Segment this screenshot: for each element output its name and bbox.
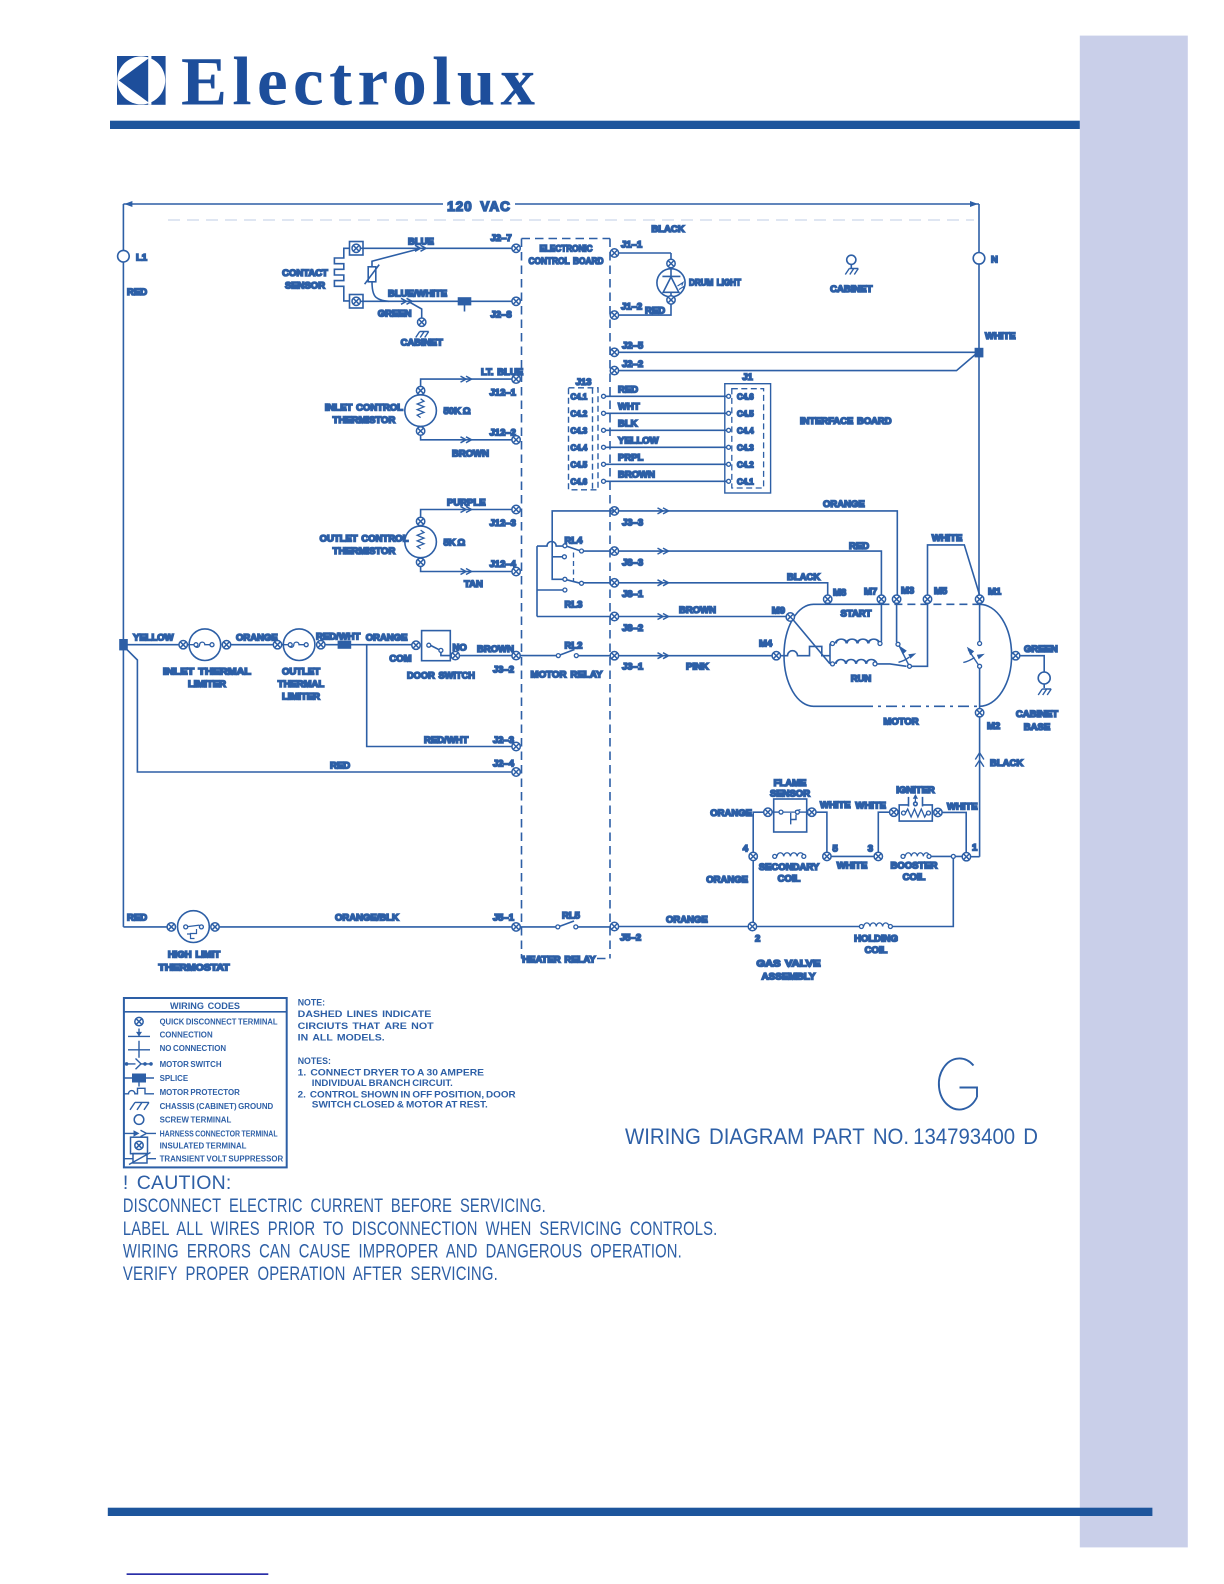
terminal J5-1 [512, 923, 520, 931]
svg-text:J12–4: J12–4 [490, 559, 517, 570]
footer link line [127, 1573, 269, 1575]
svg-text:ORANGE: ORANGE [666, 915, 708, 926]
svg-text:ORANGE/BLK: ORANGE/BLK [335, 913, 399, 924]
svg-text:BROWN: BROWN [679, 605, 716, 616]
svg-text:BLUE: BLUE [408, 237, 434, 248]
terminal M1 [975, 595, 983, 603]
motor M1 outline [784, 604, 1012, 727]
svg-text:C4.6: C4.6 [737, 393, 754, 402]
svg-text:! CAUTION:: ! CAUTION: [123, 1172, 232, 1194]
legend chassis ground [130, 1102, 274, 1111]
terminal J2-4 [512, 768, 520, 776]
svg-text:CONTROL BOARD: CONTROL BOARD [529, 256, 604, 267]
svg-text:BROWN: BROWN [477, 644, 514, 655]
wire BROWN to J12-2 [421, 428, 516, 460]
caution block [123, 1172, 718, 1285]
svg-text:BOOSTER: BOOSTER [891, 861, 938, 872]
node L1 [118, 204, 148, 298]
svg-text:SECONDARY: SECONDARY [759, 862, 820, 873]
svg-text:THERMOSTAT: THERMOSTAT [159, 963, 230, 974]
svg-text:DRUM LIGHT: DRUM LIGHT [689, 278, 741, 289]
svg-text:J8–2: J8–2 [622, 623, 643, 634]
svg-text:RED: RED [849, 541, 869, 552]
svg-text:ORANGE: ORANGE [236, 633, 278, 644]
terminal COM door switch [412, 641, 420, 649]
svg-text:ORANGE: ORANGE [823, 499, 865, 510]
terminal J2-2 [610, 366, 618, 374]
svg-text:J2–4: J2–4 [493, 759, 515, 770]
wire BLACK M2 to gas valve [975, 717, 1023, 857]
svg-text:LIMITER: LIMITER [188, 679, 226, 690]
terminal M3 [892, 595, 900, 603]
wire ORANGE/BLK high limit to J5-1 [219, 913, 512, 927]
wire BLUE to J2-7 [360, 233, 512, 251]
svg-text:INLET THERMAL: INLET THERMAL [163, 667, 251, 678]
svg-text:M1: M1 [988, 587, 1002, 598]
wire PURPLE to J12-3 [421, 498, 516, 530]
svg-text:50K Ω: 50K Ω [444, 406, 471, 417]
svg-text:1. CONNECT DRYER TO A 30 AMPE: 1. CONNECT DRYER TO A 30 AMPERE [298, 1068, 484, 1078]
fuse inlet thermal limiter [123, 629, 251, 690]
relay RL5 [520, 911, 610, 966]
thermistor element [368, 267, 376, 282]
legend motor protector [124, 1088, 240, 1097]
svg-text:BLK: BLK [618, 418, 638, 429]
svg-text:C4.6: C4.6 [571, 478, 588, 487]
wire flame sensor to terminal 4 [753, 812, 764, 852]
switch door switch [389, 631, 475, 682]
top rule [110, 121, 1080, 129]
svg-text:M9: M9 [772, 606, 785, 617]
svg-text:J13: J13 [576, 377, 592, 388]
svg-text:120 VAC: 120 VAC [447, 199, 511, 214]
wire RED to J2-4 [123, 646, 512, 772]
svg-text:J5–2: J5–2 [620, 933, 641, 944]
svg-text:COIL: COIL [903, 872, 926, 883]
svg-text:NOTE:: NOTE: [298, 998, 325, 1008]
ground cabinet base [1016, 656, 1058, 733]
wire M9 to run common [793, 620, 830, 664]
svg-text:M5: M5 [934, 586, 948, 597]
svg-text:MOTOR RELAY: MOTOR RELAY [531, 670, 604, 681]
terminal J12-3 [512, 505, 520, 513]
svg-text:J12–1: J12–1 [490, 388, 517, 399]
svg-text:HEATER RELAY: HEATER RELAY [522, 955, 596, 966]
legend transient volt suppressor [124, 1153, 283, 1165]
svg-text:OUTLET CONTROL: OUTLET CONTROL [320, 534, 409, 545]
svg-text:C4.1: C4.1 [571, 393, 588, 402]
svg-text:PURPLE: PURPLE [447, 498, 486, 509]
svg-text:LT. BLUE: LT. BLUE [481, 367, 523, 378]
svg-text:J12–2: J12–2 [490, 428, 516, 439]
wire L1 bus [122, 262, 124, 645]
svg-text:RED: RED [330, 761, 350, 772]
svg-text:COIL: COIL [778, 874, 801, 885]
wire 120 VAC rail [123, 199, 979, 214]
splice [459, 298, 471, 305]
svg-text:M4: M4 [759, 639, 773, 650]
svg-text:CABINET: CABINET [1016, 709, 1058, 720]
svg-text:C4.4: C4.4 [737, 427, 754, 436]
svg-text:VERIFY PROPER OPERATION AFTER: VERIFY PROPER OPERATION AFTER SERVICING. [123, 1263, 498, 1285]
svg-text:TRANSIENT VOLT SUPPRESSOR: TRANSIENT VOLT SUPPRESSOR [160, 1155, 284, 1164]
relay RL4 [537, 511, 614, 576]
svg-text:J12–3: J12–3 [490, 518, 516, 529]
bottom rule [108, 1508, 1153, 1516]
svg-text:QUICK DISCONNECT TERMINAL: QUICK DISCONNECT TERMINAL [160, 1018, 278, 1027]
thermostat high limit [123, 911, 229, 974]
svg-text:J1–1: J1–1 [621, 240, 643, 251]
wire L1 bus lower [122, 645, 124, 927]
outlet control thermistor [320, 517, 466, 566]
svg-text:C4.5: C4.5 [737, 410, 754, 419]
svg-text:J2–7: J2–7 [491, 233, 512, 244]
svg-text:TAN: TAN [464, 579, 483, 590]
wire WHITE M5 to M1 [928, 533, 980, 603]
svg-text:WIRING ERRORS CAN CAUSE IMPROP: WIRING ERRORS CAN CAUSE IMPROPER AND DAN… [123, 1241, 682, 1263]
svg-text:M2: M2 [987, 721, 1000, 732]
svg-text:J8–1: J8–1 [622, 589, 644, 600]
svg-text:HOLDING: HOLDING [854, 934, 898, 945]
svg-text:BLACK: BLACK [651, 224, 684, 235]
terminal J12-4 [512, 567, 520, 575]
legend screw terminal [134, 1115, 231, 1125]
svg-text:BROWN: BROWN [618, 469, 655, 480]
svg-text:ASSEMBLY: ASSEMBLY [762, 972, 817, 983]
contact sensor [282, 242, 420, 309]
wire orange [231, 644, 274, 646]
svg-text:GREEN: GREEN [1024, 644, 1058, 655]
svg-text:J5–1: J5–1 [493, 913, 515, 924]
connector J13 [569, 377, 606, 490]
svg-text:J3–1: J3–1 [622, 662, 644, 673]
terminal J5-2 [610, 922, 618, 930]
svg-text:BLACK: BLACK [787, 572, 820, 583]
svg-text:C4.5: C4.5 [571, 461, 588, 470]
svg-text:RED: RED [127, 913, 147, 924]
svg-text:INDIVIDUAL BRANCH CIRCUIT.: INDIVIDUAL BRANCH CIRCUIT. [312, 1078, 453, 1088]
svg-text:5: 5 [833, 844, 839, 855]
svg-text:M8: M8 [833, 588, 846, 599]
svg-text:LABEL ALL WIRES PRIOR TO DISCO: LABEL ALL WIRES PRIOR TO DISCONNECTION W… [123, 1218, 718, 1240]
svg-text:WHT: WHT [618, 401, 640, 412]
legend motor switch [125, 1059, 222, 1070]
terminal M9 [786, 613, 794, 621]
splice [338, 641, 350, 648]
svg-text:DOOR SWITCH: DOOR SWITCH [407, 671, 475, 682]
winding RUN [831, 659, 907, 684]
svg-text:ORANGE: ORANGE [710, 808, 752, 819]
terminal 2 / holding coil [748, 858, 953, 956]
svg-text:COIL: COIL [865, 945, 888, 956]
svg-text:C4.4: C4.4 [571, 444, 588, 453]
legend no connection [128, 1041, 226, 1058]
svg-text:SCREW TERMINAL: SCREW TERMINAL [160, 1116, 232, 1125]
svg-text:J2–2: J2–2 [622, 359, 643, 370]
svg-text:THERMAL: THERMAL [278, 679, 325, 690]
svg-text:C4.1: C4.1 [737, 478, 754, 487]
svg-text:WHITE: WHITE [985, 331, 1016, 342]
svg-text:3: 3 [868, 844, 873, 855]
side band [1080, 36, 1188, 1548]
svg-text:RED: RED [127, 287, 147, 298]
connector J1 / interface board [725, 372, 892, 493]
svg-text:RED: RED [645, 306, 665, 317]
wire BROWN J8-2 to M9 [537, 605, 786, 620]
revision letter G [939, 1058, 977, 1109]
svg-text:GAS VALVE: GAS VALVE [757, 959, 821, 970]
svg-text:WHITE: WHITE [932, 533, 963, 544]
svg-text:J2–8: J2–8 [491, 310, 512, 321]
wire LT. BLUE to J12-1 [421, 367, 524, 399]
svg-text:CONTACT: CONTACT [282, 268, 328, 279]
electronic control board (dashed) [522, 239, 611, 959]
terminal M7 [877, 595, 885, 603]
terminal J8-3 [610, 547, 618, 555]
terminal J3-2 [512, 651, 520, 659]
legend harness connector terminal [123, 1129, 278, 1138]
svg-text:CHASSIS (CABINET) GROUND: CHASSIS (CABINET) GROUND [160, 1102, 274, 1111]
svg-text:C4.2: C4.2 [571, 410, 588, 419]
wires J13 to J1 [606, 384, 727, 481]
svg-text:C4.2: C4.2 [737, 461, 754, 470]
svg-text:HIGH LIMIT: HIGH LIMIT [168, 950, 221, 961]
svg-text:RED: RED [618, 384, 638, 395]
terminal J8-2 [610, 612, 618, 620]
wire igniter to terminal 1 [942, 812, 966, 852]
wire N bus upper [978, 264, 980, 352]
Electrolux logo icon [117, 44, 536, 120]
svg-text:PRPL: PRPL [618, 452, 644, 463]
svg-text:NO: NO [453, 643, 467, 654]
svg-text:MOTOR: MOTOR [883, 717, 918, 728]
terminal J1-2 [610, 311, 618, 319]
svg-text:4: 4 [743, 844, 749, 855]
svg-text:J1–2: J1–2 [621, 302, 642, 313]
svg-text:RED/WHT: RED/WHT [424, 735, 469, 746]
motor protector and step [781, 646, 831, 655]
svg-text:SENSOR: SENSOR [285, 281, 325, 292]
relay RL2 [520, 641, 610, 681]
svg-text:INSULATED TERMINAL: INSULATED TERMINAL [160, 1141, 247, 1150]
wire door switch NO to J3-2 [460, 655, 512, 657]
svg-text:BASE: BASE [1024, 722, 1050, 733]
svg-text:ORANGE: ORANGE [706, 875, 748, 886]
svg-text:BROWN: BROWN [452, 449, 489, 460]
svg-text:INTERFACE BOARD: INTERFACE BOARD [800, 416, 892, 427]
winding START [830, 603, 882, 664]
terminal J2-7 [512, 244, 520, 252]
svg-text:2: 2 [755, 934, 760, 945]
wire TAN to J12-4 [421, 559, 517, 590]
svg-text:C4.3: C4.3 [737, 444, 754, 453]
terminal M8 [824, 595, 832, 603]
svg-text:ORANGE: ORANGE [366, 633, 408, 644]
legend splice [124, 1074, 188, 1087]
wire ORANGE J3-3 to M3 [619, 499, 898, 595]
svg-text:C4.3: C4.3 [571, 427, 588, 436]
svg-text:J1: J1 [742, 372, 753, 383]
wire BLACK J8-1 to M8 [619, 572, 828, 595]
svg-text:COM: COM [389, 654, 411, 665]
legend insulated terminal [131, 1137, 247, 1154]
svg-text:MOTOR SWITCH: MOTOR SWITCH [160, 1060, 222, 1069]
wire thermal row [316, 632, 412, 649]
svg-text:DASHED LINES INDICATE: DASHED LINES INDICATE [298, 1009, 432, 1019]
terminal M5 [923, 595, 931, 603]
svg-text:J3–2: J3–2 [493, 665, 514, 676]
svg-text:ELECTRONIC: ELECTRONIC [540, 244, 593, 255]
svg-text:5K Ω: 5K Ω [444, 538, 466, 549]
wire RED J8-3 to M7 [619, 541, 882, 595]
legend quick disconnect terminal [135, 1017, 278, 1026]
svg-text:YELLOW: YELLOW [618, 435, 659, 446]
svg-text:CABINET: CABINET [830, 284, 872, 295]
wire ORANGE terminal 4 to 2 [706, 861, 753, 923]
svg-text:WIRING CODES: WIRING CODES [170, 1001, 240, 1012]
svg-text:SPLICE: SPLICE [160, 1074, 189, 1083]
svg-text:NOTES:: NOTES: [298, 1056, 331, 1066]
terminal J3-1 [610, 652, 618, 660]
svg-text:RL5: RL5 [562, 911, 581, 922]
relay RL3 [537, 546, 610, 616]
svg-text:WHITE: WHITE [947, 802, 978, 813]
svg-text:RUN: RUN [851, 674, 872, 685]
svg-text:WHITE: WHITE [855, 801, 886, 812]
terminal J12-1 [512, 375, 520, 383]
terminal J2-8 [512, 297, 520, 305]
wire BLUE/WHITE to J2-8 [360, 289, 512, 321]
lamp drum light [619, 253, 742, 315]
svg-text:IN ALL MODELS.: IN ALL MODELS. [298, 1032, 385, 1042]
wire J2-5 to N bus [619, 351, 976, 353]
svg-text:START: START [841, 609, 872, 620]
wire RED/WHT to J2-3 [367, 645, 512, 747]
terminal J8-1 [610, 579, 618, 587]
svg-text:MOTOR PROTECTOR: MOTOR PROTECTOR [160, 1088, 240, 1097]
wire flame sensor to terminal 5 [816, 812, 827, 852]
svg-text:NO CONNECTION: NO CONNECTION [160, 1044, 227, 1053]
terminal GREEN [1011, 652, 1019, 660]
svg-text:BLACK: BLACK [990, 758, 1023, 769]
svg-text:J2–5: J2–5 [622, 341, 644, 352]
legend connection [128, 1029, 213, 1040]
gas valve terminals row [743, 843, 980, 885]
svg-text:J8–3: J8–3 [622, 558, 643, 569]
wire BLACK J1-1 to drum light [619, 252, 671, 254]
svg-text:CONNECTION: CONNECTION [160, 1030, 213, 1039]
faint model-option dashed line [168, 219, 974, 221]
svg-text:WHITE: WHITE [837, 861, 868, 872]
svg-text:INLET CONTROL: INLET CONTROL [325, 403, 403, 414]
svg-text:GREEN: GREEN [378, 309, 412, 320]
svg-text:SENSOR: SENSOR [770, 789, 810, 800]
wire ORANGE J5-2 to terminal 2 [619, 915, 749, 927]
svg-text:SWITCH CLOSED & MOTOR AT REST.: SWITCH CLOSED & MOTOR AT REST. [312, 1100, 488, 1110]
svg-text:L1: L1 [136, 253, 148, 264]
svg-text:J3–3: J3–3 [622, 518, 643, 529]
svg-text:HARNESS CONNECTOR TERMINAL: HARNESS CONNECTOR TERMINAL [160, 1129, 278, 1138]
switch centrifugal (right) [963, 603, 985, 708]
svg-text:J2–3: J2–3 [493, 735, 514, 746]
svg-text:M7: M7 [864, 587, 877, 598]
fuse outlet thermal limiter [273, 629, 325, 703]
sensor flame sensor [710, 778, 850, 832]
junction yellow splice on L1 bus [120, 640, 127, 650]
svg-text:THERMISTOR: THERMISTOR [333, 546, 396, 557]
svg-text:1: 1 [972, 843, 978, 854]
node N [973, 204, 998, 266]
ground cabinet (top right) [830, 255, 872, 295]
switch centrifugal (left) [896, 603, 928, 668]
splice junction on N bus [975, 349, 982, 357]
wire igniter to terminal 3 [878, 812, 889, 852]
svg-text:DISCONNECT ELECTRIC CURRENT BE: DISCONNECT ELECTRIC CURRENT BEFORE SERVI… [123, 1195, 546, 1217]
svg-text:LIMITER: LIMITER [282, 692, 320, 703]
svg-text:CIRCIUTS THAT ARE NOT: CIRCIUTS THAT ARE NOT [298, 1021, 435, 1031]
inlet control thermistor [325, 386, 471, 435]
terminal J2-3 [512, 742, 520, 750]
svg-text:RL3: RL3 [565, 600, 583, 611]
terminal J12-2 [512, 436, 520, 444]
svg-text:N: N [991, 255, 998, 266]
svg-text:YELLOW: YELLOW [133, 633, 174, 644]
svg-text:BLUE/WHITE: BLUE/WHITE [388, 289, 447, 300]
wire N bus to M1 [978, 357, 980, 595]
terminal M2 [975, 709, 983, 717]
svg-text:OUTLET: OUTLET [282, 667, 320, 678]
terminal J1-1 [610, 249, 618, 257]
wire PINK J3-1 to M4 [619, 653, 772, 673]
terminal J2-5 [610, 348, 618, 356]
svg-text:2. CONTROL SHOWN IN OFF POSIT: 2. CONTROL SHOWN IN OFF POSITION, DOOR [298, 1089, 517, 1099]
resistor igniter [855, 785, 977, 821]
svg-text:WHITE: WHITE [820, 800, 851, 811]
svg-text:FLAME: FLAME [774, 778, 807, 789]
svg-text:Electrolux: Electrolux [181, 44, 536, 120]
svg-text:PINK: PINK [686, 662, 709, 673]
wire J2-2 to N bus [619, 354, 977, 371]
svg-text:CABINET: CABINET [401, 338, 443, 349]
svg-text:M3: M3 [901, 586, 914, 597]
terminal M4 [772, 652, 780, 660]
ground GREEN cabinet [378, 302, 443, 349]
terminal J3-3 [610, 507, 618, 515]
svg-text:THERMISTOR: THERMISTOR [333, 415, 396, 426]
svg-text:WIRING DIAGRAM PART NO. 134: WIRING DIAGRAM PART NO. 134793400 D [625, 1124, 1038, 1149]
